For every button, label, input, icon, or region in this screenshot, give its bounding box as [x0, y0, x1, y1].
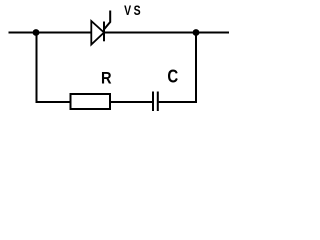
node left junction dot [33, 29, 40, 36]
wire top rail right segment [104, 32, 229, 34]
wire capacitor to right node and up [159, 33, 196, 103]
wire resistor to capacitor [110, 101, 152, 103]
svg-text:C: C [167, 66, 178, 87]
thyristor VS gate lead [104, 11, 110, 30]
wire top rail left segment [9, 32, 92, 34]
svg-text:R: R [101, 69, 112, 87]
resistor R body [71, 94, 111, 109]
capacitor C left plate [152, 92, 154, 112]
node right junction dot [193, 29, 200, 36]
thyristor VS cathode bar [103, 22, 105, 42]
capacitor C right plate [157, 92, 159, 112]
svg-text:VS: VS [124, 2, 143, 18]
thyristor VS anode triangle [91, 21, 104, 45]
wire left branch down and to resistor [37, 33, 71, 103]
